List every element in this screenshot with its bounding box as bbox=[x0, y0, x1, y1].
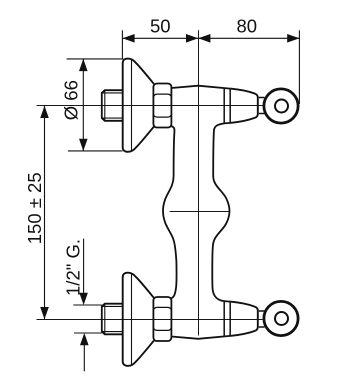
axis line of top valve bbox=[37, 105, 263, 107]
hex nut outline bbox=[153, 84, 171, 128]
arrowhead 50 right bbox=[186, 34, 198, 43]
handle collar ring line 2 bbox=[229, 89, 231, 123]
valve body top edge bbox=[171, 86, 230, 89]
svg-text:1/2" G.: 1/2" G. bbox=[63, 239, 84, 296]
svg-text:80: 80 bbox=[237, 16, 258, 37]
center line (vertical axis through faucet body) bbox=[198, 30, 200, 335]
nipple thread root top bbox=[102, 92, 123, 94]
body left edge with bulge bbox=[163, 126, 177, 298]
nipple thread root vertical bbox=[104, 90, 106, 121]
threaded wall nipple outline bbox=[102, 90, 123, 121]
dimension line 150 +/- 25 bbox=[44, 106, 46, 319]
axis line of bottom valve bbox=[37, 319, 263, 321]
arrowhead 50 left bbox=[122, 34, 134, 43]
extension line at flange face bbox=[121, 30, 123, 59]
extension line thread bottom bbox=[74, 332, 102, 334]
arrowhead 80 right bbox=[287, 34, 299, 43]
dimension line 50 bbox=[122, 37, 198, 39]
dimension line 80 bbox=[198, 37, 299, 39]
svg-text:Ø 66: Ø 66 bbox=[61, 80, 82, 120]
arrowhead dia66 top bbox=[79, 59, 88, 71]
equator line of body bulge bbox=[170, 211, 230, 213]
handle neck bottom bbox=[259, 113, 265, 115]
nipple thread root bottom bbox=[102, 117, 123, 119]
flange rim edge bbox=[131, 60, 133, 151]
arrowhead 150 top bbox=[40, 106, 49, 118]
top valve assembly bbox=[102, 59, 298, 152]
thread label 1/2" G. (rotated) bbox=[63, 239, 84, 296]
handle neck top bbox=[259, 97, 265, 99]
arrowhead thread top bbox=[79, 293, 88, 305]
handle knob outer circle bbox=[264, 89, 298, 123]
dimension text 150 +/- 25 (rotated) bbox=[24, 172, 45, 244]
arrowhead 150 bottom bbox=[40, 307, 49, 319]
handle knob hub circle bbox=[275, 100, 288, 113]
arrowhead 80 left bbox=[198, 34, 210, 43]
body right edge with bulge bbox=[212, 123, 230, 302]
extension line thread top bbox=[73, 304, 102, 306]
extension line flange bottom bbox=[68, 150, 123, 152]
arrowhead dia66 bottom bbox=[79, 139, 88, 151]
svg-text:50: 50 bbox=[150, 16, 171, 37]
dimension text dia 66 (rotated) bbox=[61, 80, 82, 120]
leader line to thread bottom bbox=[83, 335, 85, 371]
extension line flange top bbox=[67, 58, 124, 60]
hex nut upper face edge bbox=[154, 94, 172, 96]
extension line at knob end bbox=[298, 30, 300, 104]
bottom valve assembly (mirrored copy of top valve) bbox=[102, 273, 298, 366]
dimension line dia 66 bbox=[82, 59, 84, 151]
leader line to thread top bbox=[83, 239, 85, 303]
wall flange bell outline bbox=[123, 59, 154, 152]
arrowhead thread bottom bbox=[80, 333, 89, 345]
hex nut lower face edge bbox=[154, 115, 172, 117]
svg-text:150 ± 25: 150 ± 25 bbox=[24, 172, 45, 244]
handle collar ring line 1 bbox=[223, 88, 225, 124]
handle cone outline bbox=[230, 89, 258, 123]
